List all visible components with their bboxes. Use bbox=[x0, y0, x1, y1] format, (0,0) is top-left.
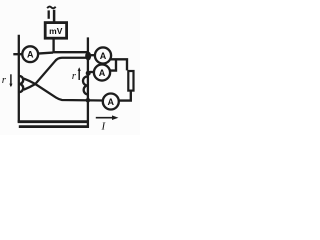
node I label bar (supply lead) bbox=[48, 10, 50, 18]
current arrow I (bottom right) bbox=[96, 115, 119, 120]
svg-text:A: A bbox=[27, 50, 34, 60]
inductor r (left coil) bbox=[19, 76, 23, 92]
bottom pair lower wire bbox=[19, 125, 89, 128]
meter box mV bbox=[45, 23, 66, 39]
label r' arrow (right) bbox=[78, 67, 81, 80]
wire supply lead into mV box bbox=[53, 10, 56, 23]
right bus wire bbox=[87, 37, 89, 127]
inductor r' (right coil) bbox=[83, 76, 88, 94]
wire crossing d2 (coil bottom up to H2) bbox=[24, 58, 89, 90]
ammeter A3 bbox=[94, 64, 110, 80]
wire crossing d1 (coil top to bottom rail) bbox=[24, 79, 103, 101]
AC source tilde bbox=[47, 7, 56, 9]
label r arrow (left) bbox=[9, 74, 12, 87]
svg-text:mV: mV bbox=[49, 26, 63, 36]
svg-text:A: A bbox=[99, 68, 106, 78]
wire H1 box lead to bus bbox=[53, 51, 89, 53]
svg-text:r: r bbox=[72, 70, 77, 82]
wire A3 riser to A2 wire bbox=[110, 59, 116, 70]
ammeter A2 bbox=[95, 47, 111, 63]
left rail wire bbox=[18, 35, 20, 123]
junction dot A3 tick bbox=[86, 71, 91, 76]
wire A1 left tick bbox=[13, 53, 22, 55]
svg-text:A: A bbox=[100, 51, 107, 61]
wire A2 tick from dot bbox=[91, 54, 95, 56]
wire A1 right stub bbox=[38, 53, 53, 54]
junction dot bus/H1/H2 bbox=[85, 52, 91, 61]
wire resistor bottom to A4 bbox=[119, 91, 131, 101]
bottom pair upper wire bbox=[18, 120, 89, 123]
svg-text:I: I bbox=[101, 121, 107, 133]
ammeter A4 bbox=[103, 94, 119, 110]
junction dot bus/bottom rail bbox=[86, 98, 91, 103]
ammeter A1 bbox=[22, 46, 38, 62]
resistor R load bbox=[128, 71, 133, 91]
wire A3 tick bbox=[90, 71, 95, 73]
svg-text:r: r bbox=[2, 74, 7, 86]
svg-text:A: A bbox=[108, 97, 115, 107]
wire A2 to resistor top bbox=[111, 59, 127, 70]
wire box bottom lead bbox=[52, 38, 54, 52]
